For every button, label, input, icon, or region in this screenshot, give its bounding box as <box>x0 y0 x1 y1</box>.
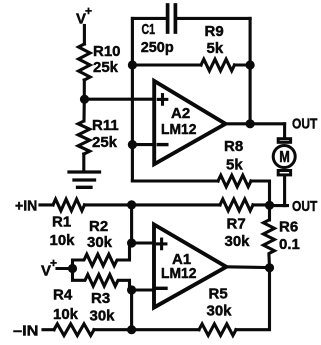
svg-text:30k: 30k <box>207 303 233 320</box>
svg-text:OUT: OUT <box>292 198 317 215</box>
svg-text:25k: 25k <box>92 134 118 151</box>
node A1 - input <box>127 285 136 294</box>
resistor R9 <box>201 59 235 71</box>
wire R1 node down to A1 + node <box>130 205 133 243</box>
A1 + pin marker <box>157 239 166 249</box>
wire R9 rail right <box>235 63 251 66</box>
node A1 output <box>265 263 274 272</box>
power V+ (bottom) <box>41 256 57 280</box>
wire OUT down to motor <box>283 124 286 137</box>
op-amp A1 <box>154 225 226 308</box>
label R2 30k <box>87 218 113 251</box>
svg-text:10k: 10k <box>53 306 79 323</box>
resistor R8 <box>218 175 251 187</box>
label C1 250p <box>141 21 174 56</box>
label R5 30k <box>207 286 233 320</box>
A2 - pin marker <box>158 143 167 146</box>
label R1 10k <box>50 214 76 250</box>
wire motor to OUT bottom <box>283 176 286 206</box>
op-amp A2 <box>154 81 225 164</box>
wire bottom rail to R5 <box>132 328 199 331</box>
svg-text:30k: 30k <box>87 234 113 251</box>
wire R11 to ground <box>82 154 85 171</box>
wire A2 - node down to R8 rail <box>132 179 218 182</box>
svg-text:R5: R5 <box>209 286 228 303</box>
node OUT bottom junction <box>265 201 274 210</box>
svg-text:5k: 5k <box>226 157 243 174</box>
label OUT (top) <box>292 116 317 133</box>
wire R7 to out node <box>253 203 270 206</box>
wire V+ stem <box>83 26 86 45</box>
resistor R1 <box>53 199 85 211</box>
A2 + pin marker <box>158 95 167 105</box>
wire R5 up to A1 output node <box>236 268 270 330</box>
svg-text:–IN: –IN <box>13 323 39 340</box>
wire A2 - input <box>132 143 154 146</box>
svg-text:5k: 5k <box>207 40 224 57</box>
resistor R3 <box>73 269 132 291</box>
wire A1 - input <box>132 288 154 291</box>
svg-text:A2: A2 <box>171 105 190 122</box>
svg-text:M: M <box>279 149 290 166</box>
svg-text:30k: 30k <box>90 308 116 325</box>
wire R10 to node <box>83 80 86 99</box>
svg-text:LM12: LM12 <box>161 265 197 282</box>
node R9 left <box>128 60 137 69</box>
svg-text:10k: 10k <box>50 232 76 249</box>
resistor R10 <box>79 44 91 80</box>
wire C1 rail left <box>132 17 165 20</box>
wire A1 output <box>226 265 269 269</box>
ground <box>69 172 100 187</box>
resistor R11 <box>78 99 90 154</box>
svg-text:R4: R4 <box>53 287 73 304</box>
node bottom rail left <box>127 325 136 334</box>
wire A2 output <box>226 122 285 125</box>
svg-text:0.1: 0.1 <box>279 236 300 253</box>
label R6 0.1 <box>279 219 300 254</box>
svg-text:R8: R8 <box>224 138 243 155</box>
node divider junction <box>80 95 89 104</box>
label R3 30k <box>90 290 116 325</box>
wire V+ to junction <box>57 267 73 270</box>
wire C1 rail right <box>177 17 250 20</box>
svg-text:OUT: OUT <box>292 116 317 133</box>
node V+ junction <box>68 264 77 273</box>
resistor R6 <box>263 205 274 267</box>
svg-text:+: + <box>85 4 92 18</box>
motor M <box>273 139 295 175</box>
node A2 - input <box>128 140 137 149</box>
label OUT (bottom) <box>292 198 317 215</box>
node A1 + input <box>127 238 136 247</box>
label -IN <box>13 323 39 340</box>
wire feedback left vertical <box>131 18 134 180</box>
svg-text:R3: R3 <box>91 290 110 307</box>
label +IN <box>15 198 37 215</box>
svg-text:250p: 250p <box>141 39 174 56</box>
node A2 output <box>246 119 255 128</box>
wire OUT bottom stub <box>270 204 288 207</box>
label R9 5k <box>205 23 224 57</box>
wire feedback right vertical <box>249 18 252 123</box>
resistor R5 <box>199 324 236 336</box>
wire +IN to R1 <box>40 203 53 206</box>
wire R1 to R7 rail <box>85 203 221 206</box>
svg-text:R10: R10 <box>93 43 121 60</box>
node R9 right <box>246 60 255 69</box>
svg-text:LM12: LM12 <box>161 121 197 138</box>
svg-text:C1: C1 <box>142 21 156 38</box>
resistor R2 <box>73 243 132 269</box>
wire R4 to node <box>94 328 132 331</box>
svg-text:R7: R7 <box>227 216 246 233</box>
resistor R7 <box>220 199 253 211</box>
capacitor C1 <box>168 5 176 32</box>
svg-text:R2: R2 <box>89 218 108 235</box>
svg-text:R6: R6 <box>279 219 298 236</box>
svg-text:30k: 30k <box>225 233 251 250</box>
A1 - pin marker <box>157 287 166 290</box>
svg-text:+IN: +IN <box>15 198 37 215</box>
svg-text:R9: R9 <box>205 23 224 40</box>
label R4 10k <box>53 287 79 324</box>
label R11 25k <box>92 117 119 151</box>
wire -IN to R4 <box>43 328 54 331</box>
svg-text:R11: R11 <box>92 117 119 134</box>
label A1 LM12 <box>161 251 197 282</box>
label R8 5k <box>224 138 243 174</box>
svg-text:R1: R1 <box>52 214 71 231</box>
wire A1 + input <box>132 241 154 244</box>
label R10 25k <box>93 43 121 76</box>
wire R9 rail left <box>132 63 201 66</box>
label A2 LM12 <box>161 105 197 138</box>
wire divider to A2 + input <box>85 98 155 101</box>
resistor R4 <box>54 324 94 336</box>
wire A1 - node down to bottom rail <box>130 290 133 330</box>
label R7 30k <box>225 216 251 251</box>
node R1 junction <box>127 200 136 209</box>
wire R8 to out node <box>251 181 270 206</box>
power V+ (top) <box>76 4 92 28</box>
svg-text:25k: 25k <box>93 59 119 76</box>
